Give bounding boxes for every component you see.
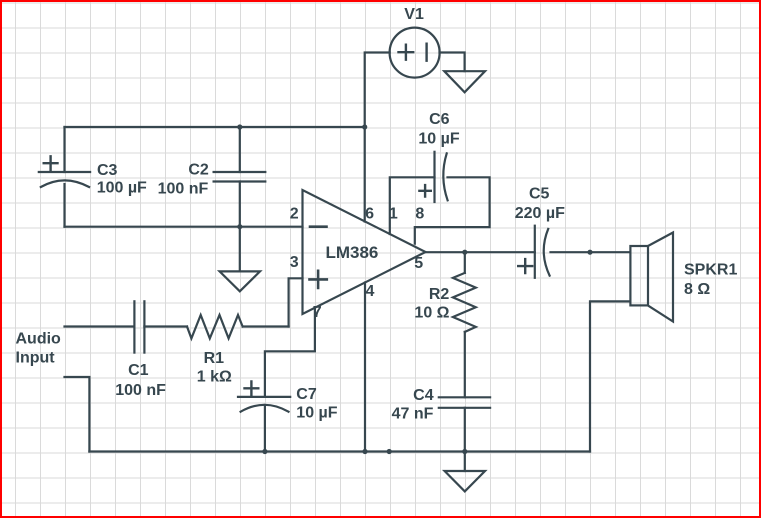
svg-text:C7: C7 <box>296 386 317 403</box>
voltage source V1 <box>390 28 440 78</box>
node C7/ground bus <box>262 449 267 454</box>
svg-text:7: 7 <box>313 304 322 321</box>
svg-text:Audio: Audio <box>16 330 62 347</box>
capacitor C7 <box>238 381 290 411</box>
ground near V1 <box>444 71 485 92</box>
resistor R2 <box>453 273 476 332</box>
node ground bus stub <box>387 449 392 454</box>
speaker SPKR1 <box>630 233 673 322</box>
wire C4 bottom lead <box>464 408 466 452</box>
capacitor C4 <box>439 397 490 408</box>
svg-text:1: 1 <box>389 206 398 223</box>
wire bottom ground bus <box>89 450 590 452</box>
wire pin 1 lead and C6 loop <box>390 177 435 234</box>
svg-text:SPKR1: SPKR1 <box>684 261 737 278</box>
capacitor C2 <box>214 172 266 182</box>
wire V1 right lead <box>440 53 465 72</box>
svg-text:C4: C4 <box>413 387 434 404</box>
svg-text:4: 4 <box>366 283 375 300</box>
wire pin 3 lead <box>289 278 303 326</box>
wire top supply bus <box>65 126 365 128</box>
wire audio input return <box>65 377 90 452</box>
wire V1 left lead <box>365 53 390 128</box>
node output/speaker <box>587 250 592 255</box>
svg-text:C6: C6 <box>429 111 450 128</box>
wire pin 4 lead <box>364 283 366 452</box>
svg-text:5: 5 <box>414 255 423 272</box>
wire pin 2 bus <box>65 226 303 228</box>
wire C2 top lead <box>239 127 241 172</box>
op-amp inverting input minus sign <box>310 225 327 228</box>
wire C6 to pin 8 <box>415 177 490 243</box>
svg-text:C1: C1 <box>128 362 149 379</box>
svg-text:8 Ω: 8 Ω <box>684 281 710 298</box>
node C2/pin2 bus <box>237 224 242 229</box>
svg-text:10 Ω: 10 Ω <box>414 304 449 321</box>
node pin4/ground bus <box>362 449 367 454</box>
wire output pin 5 <box>426 251 535 253</box>
svg-text:Input: Input <box>16 350 56 367</box>
svg-text:100 µF: 100 µF <box>97 180 147 197</box>
svg-text:1 kΩ: 1 kΩ <box>197 368 232 385</box>
capacitor C3 <box>39 156 90 187</box>
svg-text:V1: V1 <box>404 6 424 23</box>
wire C3 top lead <box>63 127 65 172</box>
capacitor C6 <box>419 152 447 202</box>
svg-text:C3: C3 <box>97 162 118 179</box>
wire audio input signal <box>65 325 135 327</box>
wire speaker return <box>590 301 630 451</box>
ground bottom <box>445 471 485 491</box>
svg-text:2: 2 <box>290 206 299 223</box>
svg-text:8: 8 <box>415 206 424 223</box>
op-amp non-inverting input plus sign <box>310 271 327 288</box>
svg-text:C2: C2 <box>188 161 209 178</box>
svg-text:LM386: LM386 <box>325 243 378 262</box>
wire C2 bottom lead <box>239 182 241 272</box>
wire C7 bottom lead <box>264 405 266 452</box>
wire pin 7 lead <box>265 308 315 397</box>
node C2/top bus <box>237 124 242 129</box>
svg-text:10 µF: 10 µF <box>418 130 459 147</box>
wire R2 to C4 <box>464 332 466 397</box>
wire to bottom ground <box>464 452 466 472</box>
ground below C2 <box>220 271 260 291</box>
svg-text:R2: R2 <box>429 286 450 303</box>
wire R2 top lead <box>464 252 466 273</box>
svg-text:C5: C5 <box>529 186 550 203</box>
wire R1 to pin3 <box>243 325 289 327</box>
node V1/pin6 <box>362 124 367 129</box>
svg-text:R1: R1 <box>204 350 225 367</box>
svg-text:220 µF: 220 µF <box>515 205 565 222</box>
svg-text:47 nF: 47 nF <box>392 405 434 422</box>
node output/R2 <box>462 250 467 255</box>
wire C5 to speaker <box>551 251 631 253</box>
capacitor C1 <box>134 301 144 352</box>
capacitor C5 <box>518 226 549 278</box>
op-amp U1 LM386 body <box>303 190 426 314</box>
svg-text:10 µF: 10 µF <box>296 404 337 421</box>
resistor R1 <box>187 315 243 338</box>
wire C1 to R1 <box>144 325 187 327</box>
node C4/ground bus <box>462 449 467 454</box>
svg-text:6: 6 <box>365 206 374 223</box>
svg-text:100 nF: 100 nF <box>158 180 209 197</box>
wire pin 6 lead <box>364 127 366 222</box>
svg-text:3: 3 <box>290 254 299 271</box>
wire C3 bottom lead <box>63 184 65 227</box>
svg-text:100 nF: 100 nF <box>115 382 166 399</box>
